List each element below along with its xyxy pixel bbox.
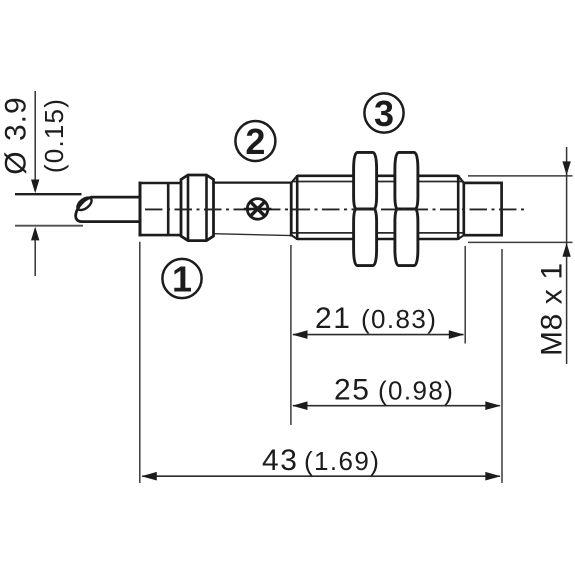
svg-text:21: 21	[315, 302, 352, 335]
dimension 25 line	[293, 405, 500, 407]
thread end chamfer bottom	[458, 235, 464, 239]
dia dimension line lower	[34, 239, 36, 276]
extension line thread start	[290, 245, 292, 425]
callout circle 1	[162, 259, 201, 298]
LED indicator symbol	[244, 199, 272, 220]
extension line thread end	[464, 246, 466, 344]
svg-text:1: 1	[172, 258, 192, 299]
knurled ring (octagon)	[181, 175, 214, 241]
rear body left edge	[139, 182, 142, 237]
svg-text:M8 x 1: M8 x 1	[536, 262, 569, 356]
svg-text:(1.69): (1.69)	[304, 446, 380, 476]
hex nut 2 lower lobe	[395, 209, 418, 266]
hex nut 2 upper lobe	[395, 152, 418, 209]
thread root top	[292, 181, 463, 183]
callout circle 3	[364, 93, 403, 132]
extension line left (rear face)	[139, 242, 141, 483]
ring inner right line	[205, 175, 208, 241]
mid body bottom edge	[214, 234, 293, 236]
thread root bottom	[292, 232, 463, 234]
M8 dimension line	[566, 147, 568, 364]
thread start inner line	[296, 175, 299, 240]
dia arrow down	[31, 180, 39, 194]
callout circle 2	[235, 121, 275, 161]
svg-text:(0.15): (0.15)	[39, 98, 69, 173]
thread crest top	[297, 175, 458, 178]
cable bend loop	[75, 195, 94, 212]
M8 extension line top	[468, 175, 573, 177]
thread start chamfer bottom	[291, 235, 297, 239]
svg-text:Ø 3.9: Ø 3.9	[0, 96, 33, 174]
dimension 43 line	[142, 475, 500, 477]
M8 extension line bottom	[468, 241, 573, 243]
mid body white fill	[214, 183, 292, 236]
thread start outer line	[290, 182, 293, 237]
thread end chamfer top	[458, 176, 464, 183]
svg-text:25: 25	[334, 374, 371, 407]
hex nut 1 upper lobe	[354, 152, 377, 209]
centerline (dash-dot)	[145, 208, 526, 210]
mid body top edge	[214, 182, 293, 184]
rear body bottom edge	[139, 234, 182, 237]
thread crest bottom	[297, 238, 458, 241]
svg-text:43: 43	[262, 444, 299, 477]
ring inner left line	[187, 175, 190, 241]
thread start chamfer top	[291, 176, 297, 183]
dimension 21 line	[293, 334, 464, 336]
extension line front face	[501, 249, 503, 483]
rear body (section 1) white fill	[139, 183, 182, 235]
svg-text:3: 3	[374, 93, 394, 134]
svg-text:2: 2	[245, 121, 265, 162]
dia arrow up	[31, 227, 39, 241]
svg-text:(0.98): (0.98)	[378, 376, 454, 406]
cable gland / strain relief outline	[76, 197, 141, 222]
rear body top edge	[139, 182, 182, 185]
svg-text:(0.83): (0.83)	[361, 304, 437, 334]
cable bottom outline	[15, 225, 83, 227]
hex nut 1 lower lobe	[354, 209, 377, 266]
thread end inner line	[457, 175, 460, 240]
sensing tip	[464, 183, 502, 235]
rear body divider line	[167, 183, 170, 235]
dia dimension line upper	[34, 91, 36, 191]
cable top outline	[15, 193, 82, 195]
